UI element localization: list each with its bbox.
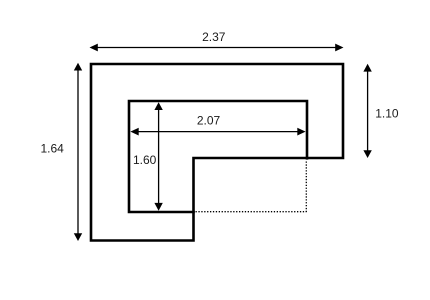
hidden edge vertical (dotted) — [305, 162, 307, 213]
dimension arrow 1.60 (inner height) — [154, 102, 162, 211]
dimension arrow 2.37 (top width) — [90, 44, 344, 52]
svg-text:1.10: 1.10 — [375, 106, 399, 120]
hidden edge horizontal (dotted) — [196, 211, 307, 213]
dimension arrow 1.64 (left height) — [74, 63, 82, 241]
outer L-shaped outline — [91, 64, 343, 241]
svg-text:1.60: 1.60 — [133, 153, 157, 167]
dimension arrow 1.10 (right height) — [363, 64, 371, 158]
svg-text:2.07: 2.07 — [197, 113, 221, 127]
dimension arrow 2.07 (inner width) — [130, 128, 305, 136]
svg-text:1.64: 1.64 — [40, 142, 64, 156]
svg-text:2.37: 2.37 — [202, 30, 226, 44]
inner cutout outline — [129, 101, 307, 212]
